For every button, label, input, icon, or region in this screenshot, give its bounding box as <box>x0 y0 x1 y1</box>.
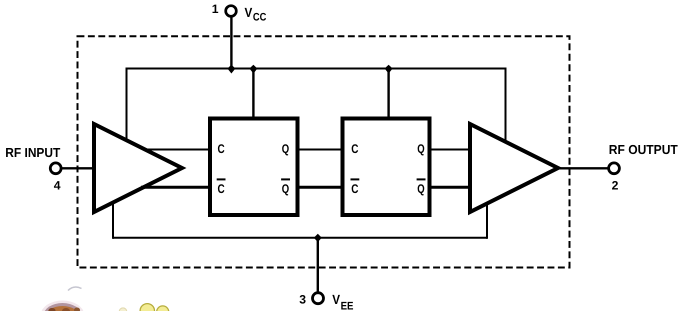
wire VCC rail to output buffer <box>505 68 507 147</box>
FF1 pin label Q-bar <box>281 179 290 196</box>
wire VCC rail to input buffer <box>126 68 128 145</box>
svg-text:V: V <box>332 292 340 307</box>
wire VEE rail to pin 3 <box>317 238 319 293</box>
pin 3 terminal <box>313 293 324 304</box>
junction dot FF2 supply <box>385 65 393 74</box>
buffer U1 input amplifier <box>94 124 182 212</box>
pin 2 terminal <box>609 163 620 174</box>
wire FF1 Q to FF2 C <box>295 149 344 151</box>
flip-flop FF1 <box>210 119 298 216</box>
svg-text:Q: Q <box>417 142 425 156</box>
svg-text:C: C <box>351 142 358 156</box>
wire VCC rail to flip-flop FF2 <box>387 69 389 123</box>
wire output buffer to pin 2 <box>556 167 609 169</box>
watermark bottom-left decoration <box>41 287 169 311</box>
wire VCC rail <box>127 68 506 70</box>
svg-text:RF INPUT: RF INPUT <box>5 145 60 160</box>
svg-text:Q: Q <box>282 182 290 196</box>
svg-text:C: C <box>351 182 358 196</box>
svg-text:CC: CC <box>253 12 266 24</box>
svg-text:EE: EE <box>341 300 354 311</box>
wire buffer U1 to FF1 C <box>145 149 212 151</box>
svg-text:4: 4 <box>54 178 61 192</box>
junction dot pin1/VCC rail <box>227 65 235 74</box>
svg-text:C: C <box>218 182 225 196</box>
svg-text:RF OUTPUT: RF OUTPUT <box>609 142 678 157</box>
wire output buffer to VEE rail <box>486 198 488 239</box>
wire FF2 Q to output buffer <box>428 149 472 151</box>
wire RF input pin 4 to input buffer <box>61 167 96 169</box>
svg-text:1: 1 <box>212 2 219 16</box>
svg-text:V: V <box>245 5 253 20</box>
FF2 pin label C-bar <box>351 179 360 196</box>
pin 4 terminal <box>50 163 61 174</box>
package outline (dashed device boundary) <box>78 36 570 267</box>
svg-text:3: 3 <box>299 293 306 307</box>
svg-text:2: 2 <box>612 179 619 193</box>
junction dot VEE rail / pin 3 <box>314 234 322 242</box>
wire VEE rail <box>113 237 487 239</box>
svg-text:Q: Q <box>282 142 290 156</box>
junction dot FF1 supply <box>249 65 257 74</box>
wire buffer U1 to FF1 C-bar <box>141 186 212 189</box>
flip-flop FF2 <box>343 119 430 216</box>
svg-text:Q: Q <box>417 182 425 196</box>
wire VCC rail to flip-flop FF1 <box>252 69 254 123</box>
FF1 pin label C-bar <box>217 179 226 196</box>
pin 1 terminal <box>226 6 237 17</box>
net label VCC <box>245 5 267 23</box>
wire input buffer to VEE rail <box>112 197 114 239</box>
net label VEE <box>332 292 353 311</box>
wire FF2 Q-bar to output buffer <box>428 186 472 189</box>
svg-text:C: C <box>218 142 225 156</box>
buffer U2 output amplifier <box>470 124 558 212</box>
wire pin 1 to VCC rail <box>230 16 232 69</box>
FF2 pin label Q-bar <box>417 179 426 196</box>
wire FF1 Q-bar to FF2 C-bar <box>295 186 344 189</box>
